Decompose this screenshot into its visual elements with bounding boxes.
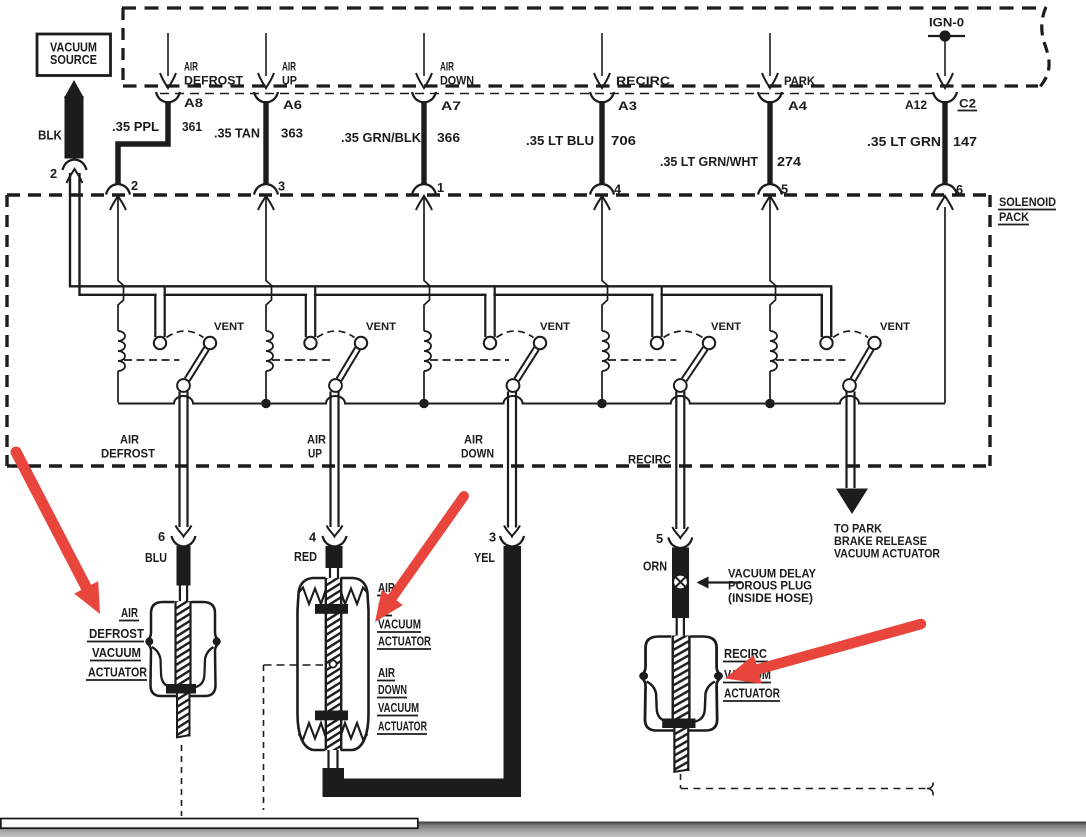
solenoid 3 valve lever [514,347,534,378]
svg-text:DEFROST: DEFROST [101,447,156,461]
retainer black band [662,719,695,729]
solenoid 5 valve lever [851,347,869,378]
solenoid 2 valve lever [337,347,356,378]
defrost rod travel dashed line [181,745,183,816]
solenoid 4 pin wire with hop [602,196,608,331]
solenoid common return line with hops [118,396,945,403]
actuator body outline [147,602,219,696]
svg-text:DOWN: DOWN [378,682,407,697]
solenoid 5 supply branch [823,293,830,297]
svg-text:YEL: YEL [474,550,495,565]
solenoid pack pin 2 connector [106,184,130,195]
solenoid 4 supply port [651,337,663,349]
ORN black hose segment with porous plug [672,548,689,619]
svg-text:AIR: AIR [282,60,296,74]
connector pin A8 female cup [156,92,180,103]
plunger shaft hatched [176,601,191,686]
hose solenoid2 to air up actuator [329,392,331,528]
svg-text:A8: A8 [184,96,203,110]
solenoid 1 pin wire with hop [118,196,124,331]
svg-text:C2: C2 [959,97,976,111]
svg-text:AIR: AIR [307,433,326,447]
svg-text:ACTUATOR: ACTUATOR [724,686,780,701]
BLU black hose segment [177,546,191,586]
connector face dashed line C1 [160,93,936,95]
solenoid 2 vent port [355,337,367,349]
svg-text:UP: UP [308,447,322,461]
crimp dots [639,672,648,680]
svg-text:VACUUM: VACUUM [378,700,419,715]
solenoid 4 plunger link dashed [608,359,676,361]
svg-text:DEFROST: DEFROST [89,626,144,641]
solenoid 2 pivot port [329,379,342,392]
harness box bottom edge [123,84,1038,87]
hose solenoid5 to park [845,392,847,489]
wire A6 .35 TAN 363 [263,101,268,184]
svg-text:A3: A3 [618,99,637,113]
hose connector 4 (RED) [327,526,343,537]
pin 6 return wire [944,207,946,403]
solenoid 1 supply port [154,337,166,349]
vacuum delay porous plug symbol [673,575,688,590]
harness wire arrow at x=266 [265,33,267,76]
svg-text:A12: A12 [905,98,927,112]
solenoid 5 pivot port [843,379,856,392]
solenoid 3 coil [424,331,431,371]
spring crimp zigzags [299,588,326,605]
actuator position dashed lines [264,664,324,666]
svg-text:3: 3 [278,179,285,194]
hose solenoid3 (air down) [507,392,509,528]
YEL thick black hose down and left to air-down port [504,546,522,797]
svg-text:A7: A7 [441,99,461,113]
svg-text:AIR: AIR [378,665,395,680]
bottom gray gradient bar [0,822,1086,837]
svg-text:SOURCE: SOURCE [50,52,97,67]
harness wire arrow at x=168 [167,33,169,76]
AIR DEFROST vacuum actuator [145,601,220,738]
actuator body outline [641,637,720,731]
solenoid 4 pivot port [674,379,687,392]
svg-text:363: 363 [281,126,303,141]
harness wire arrow at x=602 [601,33,603,76]
retainer black band [166,684,196,694]
svg-text:VENT: VENT [366,321,396,333]
diaphragm inner cup [152,647,214,688]
solenoid 2 alternate position dashed arc [317,331,355,338]
svg-text:VENT: VENT [711,321,741,333]
svg-text:3: 3 [489,530,496,545]
wire A4 .35 LT GRN/WHT 274 [767,101,772,184]
svg-text:AIR: AIR [440,60,454,74]
svg-text:.35 GRN/BLK: .35 GRN/BLK [341,130,422,145]
hose solenoid1 to defrost actuator [178,392,180,528]
recirc rod travel dashed lines [680,774,682,789]
svg-text:AIR: AIR [464,433,483,447]
svg-text:1: 1 [437,180,444,195]
plunger center pivot circle [329,660,336,667]
connector pin A4 female cup [758,92,782,103]
svg-text:DOWN: DOWN [440,74,474,88]
svg-text:2: 2 [131,178,138,193]
solenoid pack pin 4 connector [590,184,614,195]
solenoid 1 supply branch [157,293,164,297]
solenoid 2 supply port [304,337,316,349]
solenoid 3 plunger link dashed [430,359,509,361]
svg-text:VACUUM: VACUUM [92,645,141,660]
wire A7 .35 GRN/BLK 366 [421,101,426,184]
connector pin A12 female cup [933,92,957,103]
svg-text:PACK: PACK [999,210,1029,224]
solenoid 2 coil [266,331,273,371]
hose connector 5 (ORN) [672,527,688,538]
solenoid 3 alternate position dashed arc [497,331,534,338]
solenoid 5 coil [770,331,777,371]
RECIRC vacuum actuator [639,636,723,773]
connector pin A7 female cup [412,92,436,103]
hose into recirc actuator [676,616,678,637]
solenoid 1 valve lever [185,347,204,378]
vacuum hose down into solenoid pack [69,173,71,288]
solenoid 3 supply port [484,337,496,349]
solenoid pack box left edge [5,195,8,466]
solenoid 3 pivot port [507,379,520,392]
svg-text:DOWN: DOWN [461,447,494,461]
svg-text:AIR: AIR [184,60,198,74]
svg-text:A4: A4 [788,99,807,113]
svg-text:VENT: VENT [214,321,244,333]
svg-text:SOLENOID: SOLENOID [999,195,1056,209]
svg-text:366: 366 [437,130,460,145]
solenoid pack pin 1 connector [412,184,436,195]
wire A8 .35 PPL 361 [118,101,168,184]
svg-text:ACTUATOR: ACTUATOR [378,719,427,734]
solenoid 2 supply branch [307,293,314,297]
IGN-0 node dot and line [928,35,965,37]
svg-text:6: 6 [158,529,165,544]
RED black hose segment [326,546,343,568]
svg-text:5: 5 [656,531,663,546]
porous plug pointer arrow [705,581,741,583]
vacuum source black arrow up [64,80,84,98]
junction dot [597,399,607,409]
svg-text:147: 147 [953,134,977,149]
dashed end squiggle [927,783,933,796]
svg-text:.35 TAN: .35 TAN [214,126,260,141]
solenoid 5 alternate position dashed arc [833,331,868,338]
svg-text:VACUUM ACTUATOR: VACUUM ACTUATOR [834,547,940,561]
solenoid pack pin 5 connector [758,184,782,195]
vacuum connector 2 female cup [63,160,87,171]
svg-text:.35 LT BLU: .35 LT BLU [526,133,594,148]
svg-text:.35 LT GRN: .35 LT GRN [867,134,941,149]
solenoid 2 plunger link dashed [272,359,332,361]
solenoid 3 pin wire with hop [424,196,430,331]
upper black band [315,604,348,614]
svg-text:ACTUATOR: ACTUATOR [88,665,147,680]
svg-text:(INSIDE HOSE): (INSIDE HOSE) [728,591,813,605]
svg-text:.35 LT GRN/WHT: .35 LT GRN/WHT [660,154,758,169]
harness box (dashed) top edge [122,6,1046,9]
harness box torn right edge [1038,7,1049,89]
junction dot [765,399,775,409]
svg-text:274: 274 [777,154,802,169]
svg-text:PARK: PARK [784,74,815,88]
svg-text:2: 2 [50,166,57,181]
solenoid pack box top edge [7,193,990,196]
svg-text:BLK: BLK [38,128,63,143]
solenoid pack box bottom edge [7,464,990,467]
svg-text:BLU: BLU [145,550,167,565]
solenoid 5 vent port [868,337,880,349]
svg-text:DEFROST: DEFROST [184,74,244,88]
plunger shaft hatched full height [326,578,341,750]
VACUUM SOURCE box [37,34,111,76]
svg-text:706: 706 [611,133,636,148]
solenoid 4 vent port [703,337,715,349]
red arrow 3 (points to recirc actuator) [725,619,922,684]
svg-text:A6: A6 [283,98,302,112]
hose BLK black segment [65,96,84,159]
svg-text:ORN: ORN [643,559,667,574]
solenoid 5 pin wire with hop [770,196,776,331]
wire A3 .35 LT BLU 706 [599,101,604,184]
solenoid 1 coil [118,331,125,371]
junction dot [419,399,429,409]
solenoid 1 pivot port [177,379,190,392]
svg-text:VENT: VENT [880,321,910,333]
bottom white panel edge [1,819,418,829]
solenoid pack pin 3 connector [254,184,278,195]
svg-text:ACTUATOR: ACTUATOR [378,634,431,649]
wire A12 .35 LT GRN 147 [942,101,947,184]
svg-text:VACUUM: VACUUM [378,617,421,632]
hose connector 6 (BLU) [176,526,192,537]
vacuum connector 2 male arrow [67,169,83,183]
solenoid 5 supply port [820,337,832,349]
svg-text:RECIRC: RECIRC [724,646,767,661]
svg-text:361: 361 [182,119,202,134]
svg-text:RECIRC: RECIRC [628,453,671,467]
hose connector 3 (YEL) [504,526,520,537]
connector pin A6 female cup [254,92,278,103]
svg-text:RED: RED [294,549,317,564]
red arrow 2 (points to air up actuator) [375,493,468,622]
hose below double actuator [327,750,329,770]
solenoid 2 pin wire with hop [266,196,272,331]
actuator rod hatched [177,694,190,737]
solenoid 4 valve lever [682,347,703,378]
junction dot [261,399,271,409]
solenoid 1 plunger link dashed [124,359,180,361]
hose solenoid4 (recirc) [675,392,677,530]
svg-text:AIR: AIR [120,433,139,447]
svg-text:AIR: AIR [121,605,138,620]
solenoid 4 coil [602,331,609,371]
svg-text:.35 PPL: .35 PPL [112,119,159,134]
harness wire arrow at x=424 [423,33,425,76]
solenoid pack box right edge [988,195,991,466]
vacuum supply bus upper line [70,286,831,337]
solenoid pack pin 6 connector [933,184,957,195]
diaphragm inner cup [647,682,715,723]
solenoid 4 supply branch [654,293,661,297]
crimp dots [145,638,153,646]
vacuum supply bus lower line [80,295,822,337]
connector pin A3 female cup [590,92,614,103]
svg-text:VENT: VENT [540,321,570,333]
plunger shaft hatched [673,636,690,721]
svg-text:IGN-0: IGN-0 [929,16,964,30]
solenoid 1 alternate position dashed arc [167,331,204,338]
to park black arrow [836,489,868,515]
air up / air down double vacuum actuator body [298,578,326,750]
solenoid 3 supply branch [487,293,494,297]
svg-text:UP: UP [282,74,297,88]
solenoid 3 vent port [534,337,546,349]
solenoid 5 plunger link dashed [776,359,846,361]
harness box left edge [121,8,124,85]
svg-text:4: 4 [309,530,317,545]
svg-text:RECIRC: RECIRC [616,74,670,88]
lower black band [315,711,348,721]
actuator rod hatched [674,728,688,771]
red arrow 1 (points to air defrost actuator) [11,450,100,615]
solenoid 4 alternate position dashed arc [664,331,703,338]
harness wire arrow at x=770 [769,33,771,76]
solenoid 1 vent port [204,337,216,349]
